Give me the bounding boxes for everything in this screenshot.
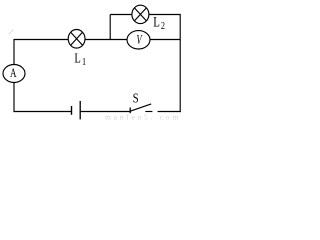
- wire bottom-left to battery: [14, 111, 72, 113]
- svg-text:L1: L1: [74, 50, 86, 68]
- battery positive plate (long): [79, 101, 81, 120]
- svg-text:L2: L2: [153, 14, 165, 32]
- ammeter A: [3, 65, 25, 83]
- switch S lever (open): [130, 104, 151, 111]
- svg-text:manfen5. com: manfen5. com: [105, 112, 181, 120]
- wire right rail vertical: [179, 15, 181, 113]
- wire L2 branch left segment: [110, 14, 132, 16]
- wire left rail top: [13, 39, 15, 65]
- svg-text:A: A: [10, 67, 17, 81]
- wire top-left horizontal (node between ammeter branch and L1): [14, 39, 69, 41]
- voltmeter V: [127, 31, 150, 49]
- wire switch fixed contact dash: [145, 111, 152, 113]
- wire to bottom-right corner: [158, 111, 181, 113]
- wire L2 to right rail: [149, 14, 181, 16]
- wire left rail bottom: [13, 83, 15, 113]
- switch S hinge contact: [129, 108, 131, 114]
- lamp L1: [68, 30, 85, 49]
- wire from L1 to voltmeter (top node): [85, 39, 127, 41]
- wire junction branch up to L2: [109, 15, 111, 40]
- battery negative plate (short): [71, 106, 73, 115]
- svg-text:V: V: [136, 33, 143, 48]
- wire battery to switch: [80, 111, 129, 113]
- lamp L2: [132, 5, 149, 23]
- svg-text:S: S: [133, 90, 139, 106]
- watermark smudge top-left: [9, 30, 14, 35]
- wire voltmeter to right rail: [150, 39, 180, 41]
